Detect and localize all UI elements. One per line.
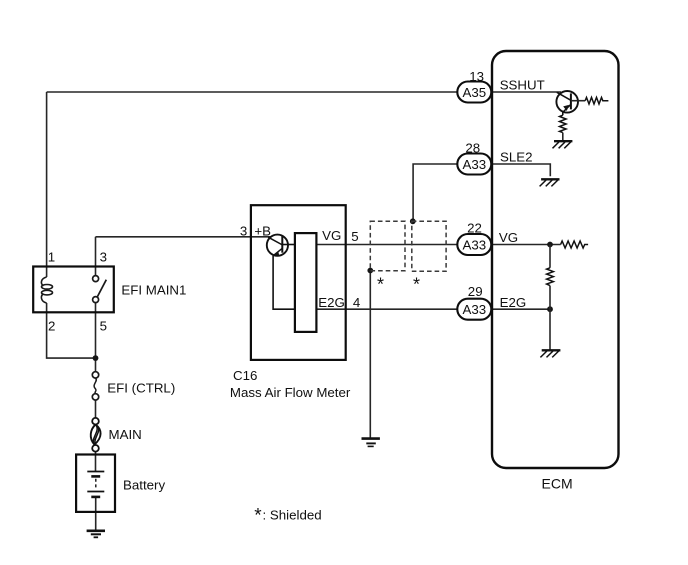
- svg-text:E2G: E2G: [318, 295, 345, 310]
- resistor R3 (VG pull): [561, 241, 589, 248]
- node shield top junction: [410, 218, 416, 224]
- wire VG net MAF to ECM: [316, 244, 457, 246]
- wire fusible link to battery: [95, 452, 97, 472]
- wire E2G junction to ground: [549, 309, 551, 350]
- svg-text:VG: VG: [322, 228, 341, 243]
- shield box left (dashed): [370, 221, 405, 270]
- svg-text:SSHUT: SSHUT: [500, 78, 545, 93]
- node E2G junction: [547, 306, 553, 312]
- ground (shield drain): [362, 439, 380, 447]
- svg-text:3: 3: [100, 250, 107, 265]
- wire +B feed: [96, 236, 272, 238]
- chassis ground (SLE2): [540, 179, 560, 186]
- svg-text:Battery: Battery: [123, 477, 165, 492]
- svg-text:: Shielded: : Shielded: [263, 508, 322, 523]
- svg-text:EFI (CTRL): EFI (CTRL): [107, 381, 175, 396]
- fusible link MAIN: [91, 418, 101, 452]
- chassis ground (E2G): [540, 350, 560, 357]
- connector A33 pin28: [457, 154, 491, 175]
- node shield drain junction: [367, 268, 373, 274]
- svg-text:*: *: [254, 506, 262, 527]
- svg-text:3: 3: [240, 223, 247, 238]
- svg-text:28: 28: [465, 141, 480, 156]
- svg-text:Mass Air Flow Meter: Mass Air Flow Meter: [230, 385, 351, 400]
- svg-text:29: 29: [468, 284, 483, 299]
- wire VG inside ECM: [491, 244, 560, 246]
- svg-text:MAIN: MAIN: [109, 427, 142, 442]
- fuse EFI (CTRL): [92, 372, 98, 400]
- svg-text:5: 5: [351, 229, 358, 244]
- svg-text:5: 5: [100, 319, 107, 334]
- wire shield drain to ground: [369, 271, 371, 439]
- svg-text:22: 22: [467, 221, 482, 236]
- wire SLE2 to shield: [413, 164, 457, 221]
- svg-text:A33: A33: [463, 302, 487, 317]
- resistor R1 (emitter): [560, 115, 567, 132]
- svg-text:2: 2: [48, 319, 55, 334]
- wire SLE2 inside ECM: [491, 164, 550, 176]
- wire SSHUT inside ECM: [491, 91, 561, 93]
- battery cells: [87, 472, 104, 497]
- chassis ground (under Q2): [553, 141, 573, 148]
- connector A35 pin13: [457, 82, 491, 103]
- wire relay pin5 down: [95, 303, 97, 372]
- relay EFI MAIN1 box: [33, 267, 114, 313]
- svg-text:A33: A33: [463, 157, 487, 172]
- ECM box: [492, 51, 619, 468]
- MAF sensing element: [295, 233, 317, 332]
- svg-text:EFI MAIN1: EFI MAIN1: [121, 283, 186, 298]
- ground battery: [87, 531, 105, 538]
- battery box: [76, 455, 115, 512]
- svg-text:4: 4: [353, 295, 360, 310]
- svg-text:SLE2: SLE2: [500, 150, 533, 165]
- svg-text:+B: +B: [254, 223, 271, 238]
- connector A33 pin22: [457, 234, 491, 255]
- wire E2G inside ECM: [491, 308, 550, 310]
- connector A33 pin29: [457, 299, 491, 320]
- svg-text:*: *: [413, 275, 420, 295]
- svg-text:ECM: ECM: [542, 476, 573, 492]
- node pin5/pin2 junction: [93, 355, 99, 361]
- wire relay pin2 to junction: [47, 303, 96, 358]
- wire top SSHUT net: [47, 91, 458, 93]
- wire E2G net MAF to ECM: [316, 308, 457, 310]
- svg-text:C16: C16: [233, 368, 257, 383]
- relay switch contact bottom: [93, 297, 99, 303]
- svg-text:VG: VG: [499, 230, 518, 245]
- svg-text:13: 13: [469, 69, 484, 84]
- wire battery to ground: [95, 497, 97, 531]
- shield box right (dashed): [412, 221, 446, 271]
- svg-text:A33: A33: [463, 237, 487, 252]
- wire fuse to fusible link: [95, 400, 97, 418]
- resistor R4 (VG to E2G): [549, 245, 551, 268]
- relay coil: [41, 277, 52, 303]
- svg-text:A35: A35: [463, 85, 487, 100]
- svg-text:1: 1: [48, 250, 55, 265]
- wire relay pin3 riser: [95, 237, 97, 276]
- MAF sensor box C16: [251, 205, 346, 360]
- transistor Q2 (ECM SSHUT driver): [556, 91, 578, 115]
- svg-text:E2G: E2G: [500, 295, 527, 310]
- transistor Q1 (MAF power): [267, 235, 295, 310]
- svg-text:*: *: [377, 275, 384, 295]
- relay switch contact top: [93, 276, 99, 282]
- wire relay pin1 drop: [46, 92, 48, 277]
- relay switch blade: [97, 280, 106, 297]
- resistor R2 (collector out): [571, 100, 585, 102]
- node VG junction: [547, 242, 553, 248]
- wire R1 to chassis: [562, 133, 564, 142]
